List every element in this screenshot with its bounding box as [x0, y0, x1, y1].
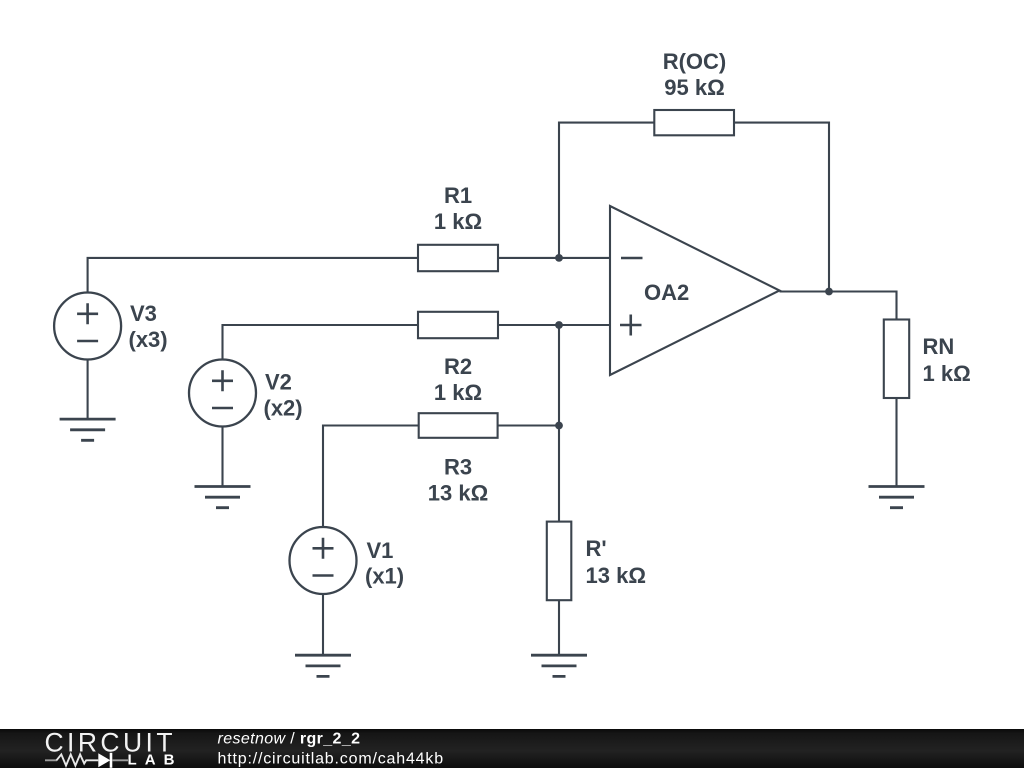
ground under RN [869, 487, 925, 508]
resistor R2 [418, 312, 498, 338]
wire node B column down to R' top [558, 325, 560, 522]
svg-text:13 kΩ: 13 kΩ [586, 563, 646, 588]
ground under V3 [60, 419, 116, 440]
svg-text:R3: R3 [444, 455, 472, 480]
svg-text:V2: V2 [265, 370, 292, 395]
wire V3 top to R1 left [88, 258, 418, 293]
svg-text:13 kΩ: 13 kΩ [428, 481, 488, 506]
resistor RN [884, 320, 909, 399]
wire RN bottom to ground [895, 398, 897, 487]
voltage source V3 [54, 293, 121, 360]
svg-text:http://circuitlab.com/cah44kb: http://circuitlab.com/cah44kb [218, 751, 444, 768]
svg-text:1 kΩ: 1 kΩ [434, 209, 482, 234]
svg-text:OA2: OA2 [644, 280, 689, 305]
svg-text:R(OC): R(OC) [663, 49, 727, 74]
svg-text:1 kΩ: 1 kΩ [434, 380, 482, 405]
wire op-amp output to RN top [780, 292, 897, 320]
resistor R3 [419, 413, 498, 438]
wire R' bottom to ground [558, 600, 560, 655]
wire V2 top to R2 left [223, 325, 419, 359]
svg-text:R': R' [586, 536, 607, 561]
resistor R(OC) [654, 110, 734, 135]
wire V1 bottom to ground [322, 594, 324, 655]
svg-text:R1: R1 [444, 183, 472, 208]
wire R3 right to node C [498, 424, 559, 426]
node A (inverting input junction) [555, 254, 563, 262]
wire R2 right to op-amp non-inverting input [498, 324, 610, 326]
voltage source V2 [189, 360, 256, 427]
svg-text:R2: R2 [444, 354, 472, 379]
svg-text:V3: V3 [130, 301, 157, 326]
ground under V1 [295, 655, 351, 676]
wire V2 bottom to ground [221, 427, 223, 487]
footer bar [0, 729, 1024, 768]
node B (non-inverting input junction) [555, 321, 563, 329]
op-amp OA2 [610, 206, 780, 375]
svg-text:1 kΩ: 1 kΩ [923, 361, 971, 386]
wire R1 right to op-amp inverting input [498, 257, 610, 259]
wire V1 top to R3 left [323, 426, 419, 528]
wire feedback right branch (R(OC) right down to output node) [734, 123, 829, 292]
svg-text:(x3): (x3) [129, 327, 168, 352]
ground under R' [531, 655, 587, 676]
resistor R1 [418, 245, 498, 271]
CircuitLab logo resistor zigzag and diode [45, 753, 128, 768]
svg-text:95 kΩ: 95 kΩ [664, 75, 724, 100]
node D (output junction) [825, 288, 833, 296]
ground under V2 [195, 487, 251, 508]
node C (R3 / R' junction) [555, 422, 563, 430]
voltage source V1 [290, 527, 357, 594]
resistor R' [547, 522, 572, 601]
wire feedback left branch (node to R(OC) left) [559, 123, 654, 258]
svg-text:V1: V1 [367, 538, 394, 563]
wire V3 bottom to ground [87, 359, 89, 419]
svg-text:resetnow / rgr_2_2: resetnow / rgr_2_2 [218, 731, 361, 748]
svg-text:(x2): (x2) [264, 396, 303, 421]
svg-text:LAB: LAB [128, 751, 175, 768]
svg-text:RN: RN [923, 334, 955, 359]
svg-text:(x1): (x1) [365, 564, 404, 589]
